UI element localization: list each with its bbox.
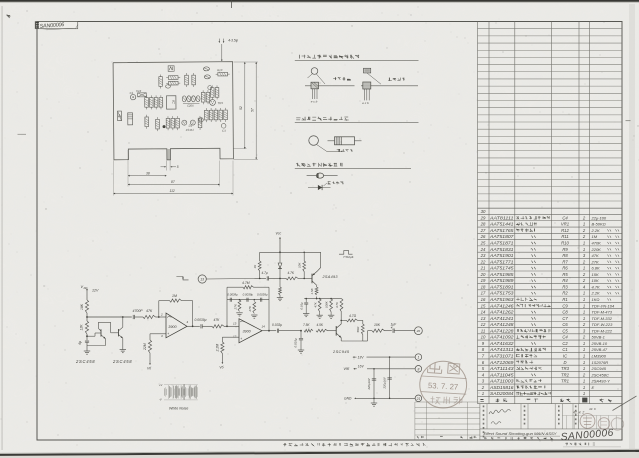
- wire output tap: [363, 340, 368, 342]
- svg-text:AAT51891: AAT51891: [489, 284, 514, 289]
- svg-text:VR1: VR1: [561, 222, 569, 227]
- wire to Q3 base: [328, 330, 337, 332]
- svg-text:4700P: 4700P: [133, 309, 144, 313]
- svg-text:29: 29: [480, 215, 486, 220]
- svg-text:AAT41241: AAT41241: [489, 316, 514, 321]
- svg-text:TDF-M-222: TDF-M-222: [592, 328, 613, 333]
- svg-text:27K: 27K: [233, 303, 237, 310]
- revision table: [415, 401, 480, 403]
- pcb dimension vertical 52: [244, 62, 246, 149]
- wire 1uF to pin 2: [394, 330, 415, 332]
- note 2 polarity label: [337, 149, 340, 152]
- svg-text:14: 14: [262, 325, 266, 329]
- svg-text:TDF-M-473: TDF-M-473: [592, 310, 613, 315]
- svg-text:4.7μ: 4.7μ: [262, 271, 268, 275]
- svg-text:-V: -V: [159, 398, 162, 402]
- wire U2 output: [262, 330, 276, 332]
- svg-text:AAT51441: AAT51441: [489, 222, 514, 227]
- svg-text:AAT41228: AAT41228: [489, 328, 515, 333]
- svg-text:AAT41311: AAT41311: [489, 347, 514, 352]
- svg-text:AAT51963: AAT51963: [489, 297, 515, 302]
- svg-text:SAD20084: SAD20084: [490, 391, 514, 396]
- capacitor twin-T 3: [260, 298, 262, 302]
- resistor 12K: [85, 321, 88, 334]
- svg-text:AAT11045: AAT11045: [489, 372, 515, 377]
- resistor 4.5K: [316, 329, 328, 332]
- svg-text:24: 24: [480, 247, 486, 252]
- note 1 transistor body left: [311, 82, 319, 89]
- svg-text:AAT51831: AAT51831: [489, 247, 514, 252]
- svg-text:R10: R10: [561, 241, 569, 246]
- svg-text:19: 19: [481, 278, 486, 283]
- capacitor 220u 16V first: [372, 378, 376, 380]
- svg-text:AAT51745: AAT51745: [489, 266, 515, 271]
- svg-text:Vсс: Vсс: [276, 232, 282, 236]
- header diagonal slash: [613, 396, 637, 411]
- svg-text:56Ω: 56Ω: [356, 326, 360, 332]
- title text pseudo kanji row: [484, 437, 487, 439]
- svg-text:e c b: e c b: [362, 101, 369, 105]
- capacitor 0.033u output: [276, 329, 278, 333]
- svg-text:C8: C8: [562, 310, 568, 315]
- svg-text:AAT51989: AAT51989: [489, 278, 515, 283]
- svg-text:0.0039μ: 0.0039μ: [227, 292, 238, 296]
- svg-text:C7: C7: [562, 316, 568, 321]
- wire 10K to 1uF: [385, 330, 392, 332]
- note 1 chip label right: [388, 78, 392, 81]
- pcb hole mark F: [206, 67, 208, 69]
- svg-text:R3: R3: [562, 284, 568, 289]
- ground noise source left: [84, 350, 90, 352]
- wire shunt cap to ground: [300, 340, 302, 350]
- svg-text:1: 1: [583, 341, 585, 346]
- capacitor 1uF output: [392, 329, 394, 333]
- note 1 heading transistor mounting: [299, 55, 301, 59]
- note 1 chip label left: [333, 77, 336, 80]
- op-amp U2 LM3900 triangle: [239, 319, 262, 343]
- svg-text:4.7Ω: 4.7Ω: [349, 314, 357, 318]
- svg-text:0.0039μ: 0.0039μ: [195, 318, 207, 322]
- pcb capacitor oval row: [182, 96, 186, 102]
- title block vertical dotted stamp columns: [483, 406, 485, 408]
- resistor 4.7K pulse: [286, 277, 298, 280]
- ground 47K pulse: [317, 314, 323, 316]
- svg-text:10K: 10K: [592, 278, 599, 283]
- svg-text:53. 7. 27: 53. 7. 27: [428, 381, 459, 392]
- svg-text:R5: R5: [562, 272, 568, 277]
- svg-text:18: 18: [481, 284, 486, 289]
- svg-text:42. 4. 2: 42. 4. 2: [573, 411, 584, 415]
- svg-text:C5: C5: [562, 328, 568, 333]
- svg-text:57: 57: [251, 108, 255, 112]
- svg-text:23: 23: [480, 253, 486, 258]
- svg-text:TR3: TR3: [217, 101, 223, 105]
- wire 4.7ohm to emitter resistor: [358, 319, 363, 321]
- svg-text:R1: R1: [562, 297, 567, 302]
- resistor 4.7M: [243, 286, 254, 289]
- note text below frame bottom: [283, 443, 286, 446]
- wire to U2 input node: [224, 325, 239, 327]
- svg-text:2SC458C: 2SC458C: [591, 372, 609, 377]
- svg-text:12V: 12V: [92, 289, 99, 293]
- title block grid: [479, 404, 481, 440]
- inventory mark top-left margin: [7, 15, 11, 18]
- svg-text:21: 21: [480, 266, 486, 271]
- resistor 47K input: [143, 315, 156, 318]
- parts table name column pseudo text: [516, 216, 519, 219]
- wire 22M to VB arrow: [149, 353, 151, 364]
- left paper edge: [1, 6, 4, 450]
- capacitor 0.01u pulse shaping: [305, 299, 307, 303]
- svg-text:ASD15816: ASD15816: [489, 385, 515, 390]
- pcb resistor cluster of four: [145, 98, 149, 108]
- wire diode junction down: [279, 278, 281, 287]
- svg-text:220K: 220K: [591, 247, 602, 252]
- svg-text:11: 11: [481, 328, 486, 333]
- pcb capacitor C3: [221, 124, 226, 129]
- svg-text:+V: +V: [159, 383, 163, 387]
- svg-text:2.2K: 2.2K: [591, 228, 601, 233]
- stamp text gijutsubu: [430, 396, 440, 404]
- svg-text:TDF-W-223: TDF-W-223: [592, 322, 614, 327]
- wire 12K to cap node: [86, 334, 88, 340]
- pcb capacitor C4: [199, 118, 203, 122]
- wire to pulse bottom rail: [316, 297, 318, 299]
- wire cap to ground: [86, 342, 88, 351]
- svg-text:AAT41248: AAT41248: [489, 322, 515, 327]
- wire pin13 to cap: [206, 277, 266, 280]
- wire Q2 collector to signal rail: [122, 317, 124, 327]
- pcb transistor second: [190, 120, 195, 125]
- svg-text:1: 1: [583, 354, 585, 359]
- twin-T top wire right: [254, 286, 270, 288]
- svg-text:R11: R11: [561, 234, 568, 239]
- resistor 4.7 ohm collector: [341, 319, 346, 321]
- parts list table grid: [477, 22, 479, 404]
- svg-text:26: 26: [480, 234, 486, 239]
- stamp text shutsuzu: [427, 362, 442, 373]
- svg-text:4-3.5φ: 4-3.5φ: [228, 39, 239, 43]
- svg-text:2SC458: 2SC458: [75, 359, 95, 364]
- pcb dimension 38: [128, 175, 167, 177]
- wire node to coupling: [87, 316, 132, 318]
- pcb board outline: [113, 62, 233, 161]
- node pin 13 input circle: [198, 275, 206, 283]
- note 1 transistor body right: [363, 82, 371, 89]
- wire pin1 rail down: [389, 357, 391, 398]
- svg-text:R10: R10: [217, 68, 223, 72]
- svg-text:7.5±2μS: 7.5±2μS: [343, 255, 354, 259]
- svg-text:220μ16V: 220μ16V: [383, 376, 387, 389]
- resistor 1M feedback: [170, 299, 182, 302]
- handwritten signature in title block: [489, 409, 511, 414]
- pulse rail horizontal: [260, 251, 321, 253]
- note 1 figure chip top view right: [364, 68, 371, 73]
- svg-text:6μ: 6μ: [78, 341, 82, 345]
- pcb electrolytic side view: [128, 113, 133, 125]
- svg-text:7.5K: 7.5K: [303, 323, 310, 327]
- white noise waveform figure: [163, 388, 165, 395]
- capacitor 220u 16V second: [387, 377, 391, 379]
- svg-text:C3: C3: [222, 129, 226, 133]
- wire U1 bottom input: [150, 333, 166, 335]
- svg-text:AAT51985: AAT51985: [489, 272, 515, 277]
- svg-text:TR2: TR2: [136, 89, 142, 93]
- svg-text:1: 1: [583, 297, 585, 302]
- svg-text:1.5K: 1.5K: [310, 287, 314, 294]
- note 3 diode label: [324, 183, 328, 186]
- step input symbol: [176, 277, 188, 280]
- svg-text:AAT81111: AAT81111: [489, 215, 514, 220]
- svg-text:2SA493-Y: 2SA493-Y: [591, 379, 611, 384]
- svg-text:47K: 47K: [146, 309, 153, 313]
- svg-text:1μF: 1μF: [391, 323, 398, 327]
- svg-text:5: 5: [177, 165, 179, 169]
- wire 4.7K to base: [298, 277, 312, 279]
- approval stamp circle 3: [611, 418, 623, 430]
- svg-text:1: 1: [583, 360, 585, 365]
- pcb center slot hatch: [167, 149, 170, 159]
- svg-text:43. 6: 43. 6: [589, 407, 596, 411]
- wire pin8 rail down: [373, 369, 375, 399]
- svg-text:0.033μ: 0.033μ: [272, 323, 282, 327]
- wire Q2 emitter to ground: [122, 338, 124, 349]
- note 3 heading diode mounting: [296, 163, 300, 167]
- svg-text:Vбб: Vбб: [344, 367, 350, 371]
- feedback wire down to output: [182, 300, 193, 302]
- svg-text:1: 1: [583, 379, 585, 384]
- svg-text:0.018μ: 0.018μ: [294, 338, 298, 348]
- node pin 21 circle: [415, 395, 422, 402]
- ground 100K pulse: [328, 314, 334, 316]
- note 2 heading capacitor mounting: [296, 118, 300, 120]
- svg-text:4.7M: 4.7M: [242, 281, 250, 285]
- wire Q3 collector up: [340, 320, 342, 324]
- pcb resistor row bottom right: [205, 110, 209, 120]
- svg-text:2: 2: [160, 313, 163, 317]
- svg-text:AAT51807: AAT51807: [489, 234, 515, 239]
- ground below diode resistor: [279, 295, 281, 298]
- twin-T top wire: [227, 286, 243, 288]
- svg-text:15: 15: [481, 303, 486, 308]
- svg-text:18K: 18K: [80, 303, 84, 310]
- svg-text:AAT51771: AAT51771: [489, 259, 514, 264]
- op-amp U1 LM3900 triangle: [166, 313, 187, 338]
- svg-text:470K: 470K: [592, 241, 602, 246]
- svg-text:4.5K: 4.5K: [317, 323, 324, 327]
- svg-text:20: 20: [416, 329, 421, 333]
- svg-text:R12: R12: [561, 228, 569, 233]
- svg-text:1: 1: [583, 391, 585, 396]
- svg-text:1S441: 1S441: [186, 128, 195, 132]
- svg-text:13: 13: [233, 322, 237, 326]
- dark scan edge bottom: [0, 451, 639, 458]
- svg-text:C1: C1: [562, 347, 567, 352]
- svg-text:R6: R6: [562, 266, 568, 271]
- node pin 2 output circle: [415, 327, 423, 335]
- svg-text:C4: C4: [562, 215, 568, 220]
- svg-text:1: 1: [583, 222, 585, 227]
- resistor 100K pulse shaping: [330, 299, 333, 312]
- resistor below diode: [279, 287, 282, 295]
- svg-text:22μ-100: 22μ-100: [591, 215, 607, 220]
- ground 27K 1: [236, 312, 242, 314]
- capacitor 6u: [85, 340, 89, 342]
- svg-text:112: 112: [170, 189, 175, 193]
- feedback wire up from input: [158, 301, 160, 317]
- svg-text:30: 30: [481, 209, 486, 214]
- pcb IC rectangle: [166, 96, 176, 109]
- svg-text:1M: 1M: [592, 234, 598, 239]
- wire U2 bottom input: [222, 336, 239, 338]
- svg-text:2SA493: 2SA493: [322, 275, 339, 279]
- twin-T right rail: [268, 287, 270, 331]
- capacitor twin-T 2: [246, 298, 248, 302]
- svg-text:220μ16V: 220μ16V: [367, 377, 371, 390]
- svg-text:R7: R7: [562, 259, 568, 264]
- drawing number label box: [35, 22, 77, 29]
- svg-text:4.7K: 4.7K: [288, 271, 295, 275]
- svg-text:25VB-10: 25VB-10: [591, 341, 608, 346]
- note 2 figure circle: [309, 136, 319, 146]
- svg-text:AAT12069: AAT12069: [489, 360, 515, 365]
- resistor 47K pulse shaping: [318, 299, 321, 312]
- twin-T middle wire: [227, 299, 269, 301]
- svg-text:21: 21: [416, 397, 421, 401]
- pcb diode D: [118, 111, 122, 121]
- svg-text:C2: C2: [562, 341, 568, 346]
- svg-text:Vб: Vб: [219, 366, 223, 370]
- svg-text:13V: 13V: [358, 355, 365, 359]
- svg-text:IC: IC: [171, 100, 175, 104]
- node pin 8 circle: [415, 366, 422, 373]
- svg-text:R4: R4: [562, 278, 568, 283]
- svg-text:1: 1: [583, 247, 585, 252]
- twin-T left rail: [226, 287, 228, 326]
- svg-text:C205: C205: [187, 104, 194, 108]
- svg-text:C6: C6: [562, 322, 568, 327]
- svg-text:14: 14: [481, 310, 486, 315]
- wire rail left down: [259, 252, 261, 261]
- wire 18K to node: [86, 313, 88, 321]
- capacitor twin-T 1: [229, 298, 231, 302]
- approval stamp circle 2: [598, 418, 610, 430]
- svg-text:R9: R9: [562, 247, 568, 252]
- svg-text:25: 25: [480, 241, 486, 246]
- resistor 1.5K collector: [315, 287, 318, 295]
- svg-text:AAT41262: AAT41262: [489, 310, 515, 315]
- svg-text:27K: 27K: [591, 259, 599, 264]
- wire Vcc down: [279, 237, 281, 239]
- svg-text:10K: 10K: [374, 323, 381, 327]
- svg-text:28: 28: [480, 222, 486, 227]
- resistor 4.7K to Q3 collector: [340, 299, 343, 312]
- wire vdd down: [86, 289, 88, 291]
- svg-text:27K: 27K: [248, 305, 252, 312]
- pcb solder pad dot: [163, 125, 166, 128]
- svg-text:3900: 3900: [243, 329, 252, 333]
- svg-text:22M: 22M: [143, 343, 147, 351]
- margin dash left: [18, 133, 27, 135]
- svg-text:TR2: TR2: [561, 372, 570, 377]
- svg-text:Effect Sound Shooting-gun MAIN: Effect Sound Shooting-gun MAIN ASSY: [484, 432, 558, 436]
- svg-text:AAT51901: AAT51901: [489, 253, 514, 258]
- resistor 1K pulse left: [258, 261, 261, 271]
- svg-text:27: 27: [480, 228, 486, 233]
- dark scan edge top: [0, 0, 639, 2]
- svg-text:TR3: TR3: [561, 366, 570, 371]
- resistor 22M bias: [148, 340, 151, 353]
- wire U1 output: [187, 325, 200, 327]
- svg-text:13: 13: [481, 316, 486, 321]
- svg-text:13: 13: [200, 278, 204, 282]
- svg-text:2SC945: 2SC945: [591, 366, 607, 371]
- node pin 1 circle: [415, 354, 422, 361]
- svg-text:17: 17: [481, 291, 486, 296]
- resistor 2.2M bias: [221, 342, 224, 354]
- svg-text:52: 52: [239, 106, 243, 110]
- resistor 27K shunt 1: [239, 299, 241, 301]
- note 2 capacitor body: [328, 140, 335, 142]
- note 1 board line right: [361, 85, 418, 87]
- svg-text:AAT51753: AAT51753: [489, 291, 515, 296]
- svg-text:16: 16: [481, 297, 486, 302]
- pulse bottom rail: [304, 298, 341, 300]
- svg-text:50VB-1: 50VB-1: [592, 335, 605, 340]
- pcb resistor vertical: [159, 77, 163, 87]
- svg-text:47K: 47K: [214, 318, 221, 322]
- wire left branch to signal: [259, 271, 261, 278]
- transistor Q4 2SA493: [311, 274, 313, 284]
- svg-text:0.0039μ: 0.0039μ: [243, 292, 254, 296]
- approval stamp circle 1: [580, 414, 595, 429]
- pcb capacitor ellipses: [203, 67, 209, 71]
- pcb transistor TR1: [182, 120, 187, 125]
- svg-text:47K: 47K: [592, 253, 599, 258]
- svg-text:2SC945: 2SC945: [332, 349, 350, 354]
- pcb dimension vertical 57: [255, 62, 257, 159]
- pcb component square A: [168, 66, 174, 72]
- svg-text:AAT11143: AAT11143: [489, 366, 515, 371]
- svg-text:B-50KΩ: B-50KΩ: [592, 222, 606, 227]
- capacitor 0.0039u interstage: [200, 324, 202, 328]
- svg-text:15K: 15K: [592, 272, 599, 277]
- svg-text:1: 1: [583, 241, 585, 246]
- svg-text:3900: 3900: [168, 325, 177, 329]
- power row 13V to pin 1: [353, 356, 355, 358]
- svg-text:1: 1: [583, 366, 585, 371]
- svg-text:+: +: [240, 337, 242, 341]
- pcb resistors bottom left: [145, 117, 149, 127]
- svg-text:AAT51871: AAT51871: [489, 241, 514, 246]
- svg-text:1M: 1M: [172, 294, 177, 298]
- svg-text:R8: R8: [562, 253, 568, 258]
- svg-text:1: 1: [583, 316, 585, 321]
- svg-text:12K: 12K: [80, 324, 84, 331]
- svg-text:20: 20: [480, 272, 486, 277]
- svg-text:1: 1: [583, 303, 585, 308]
- svg-text:25VB-47: 25VB-47: [591, 347, 608, 352]
- svg-text:TR1: TR1: [561, 379, 569, 384]
- svg-text:TDF-M-332: TDF-M-332: [592, 316, 613, 321]
- op-amp U1 input pin marks: [167, 317, 171, 318]
- svg-text:16V: 16V: [358, 365, 365, 369]
- svg-text:1: 1: [583, 310, 585, 315]
- svg-text:GND: GND: [344, 397, 352, 401]
- svg-text:0.0039μ: 0.0039μ: [257, 292, 268, 296]
- resistor 7.5K: [304, 329, 313, 332]
- svg-text:1: 1: [583, 347, 585, 352]
